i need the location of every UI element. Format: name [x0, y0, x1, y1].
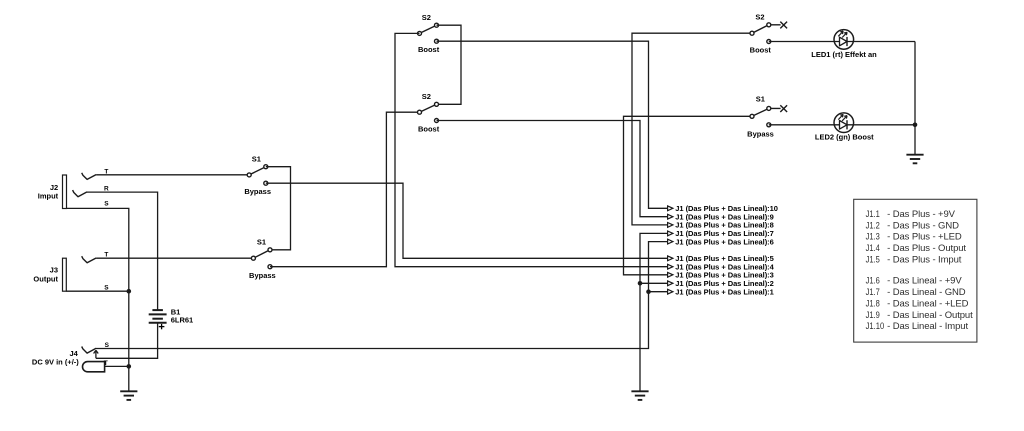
svg-text:S2: S2	[422, 92, 431, 101]
svg-text:T: T	[104, 251, 108, 258]
J1 pin 10 port arrow	[668, 206, 673, 211]
battery B1 plates	[149, 310, 167, 323]
J1 pin 4 port arrow	[668, 264, 673, 269]
wire J3 T to S1 pole2 common	[96, 257, 253, 259]
svg-text:- Das Lineal - Output: - Das Lineal - Output	[887, 310, 973, 321]
switch S2 LED-pole common contact	[750, 31, 754, 35]
svg-text:- Das Plus - +LED: - Das Plus - +LED	[887, 232, 962, 243]
switch S2 LED-pole upper contact	[767, 23, 771, 27]
junction J4 tip / GND line	[127, 364, 132, 369]
svg-text:Imput: Imput	[38, 191, 59, 200]
svg-text:Boost: Boost	[750, 46, 772, 55]
switch S1 pole2 lower contact	[268, 265, 272, 269]
switch S1 LED-pole upper contact	[767, 106, 771, 110]
J3 tip contact T	[82, 256, 96, 263]
svg-text:- Das Plus - +9V: - Das Plus - +9V	[887, 209, 956, 220]
switch S2 pole2 common contact	[418, 110, 422, 114]
wire S1 pole1 lower to J1 pin5 (Das Plus Imput)	[266, 183, 668, 258]
wire J1 pin7 (Das Lineal GND) down to ground	[640, 233, 668, 391]
wire S2 pole1 lower to J1 pin10 (Das Lineal Imput)	[437, 41, 668, 208]
svg-text:- Das Lineal - +9V: - Das Lineal - +9V	[887, 276, 962, 287]
wire S1 pole2 lower up to S2 pole2 common	[270, 112, 420, 267]
switch S1 pole1 upper contact	[264, 165, 268, 169]
wire S2 pole1 upper to S2 pole2 upper	[437, 25, 462, 104]
J2 ring contact R	[73, 190, 87, 197]
switch S2 pole1 common contact	[418, 31, 422, 35]
svg-text:J1.3: J1.3	[866, 232, 880, 243]
svg-text:- Das Plus - GND: - Das Plus - GND	[887, 220, 959, 231]
switch S1 pole1 lower contact	[264, 181, 268, 185]
wire J2 R to battery B1 top	[87, 192, 158, 310]
svg-text:Boost: Boost	[418, 45, 440, 54]
svg-text:S: S	[104, 284, 109, 291]
switch S1 pole2 common contact	[251, 256, 255, 260]
svg-text:- Das Lineal - Imput: - Das Lineal - Imput	[887, 321, 968, 332]
connector J3 (Output jack) body	[63, 258, 67, 291]
LED LED2	[834, 113, 854, 133]
S1 LED-pole unconnected stub and X	[771, 105, 787, 112]
S2 LED-pole unconnected stub and X	[771, 22, 787, 29]
wire J3 S to GND rail	[66, 290, 129, 292]
wire S2 pole1 common to J1 pin4 (Das Plus Output)	[395, 33, 668, 266]
junction J3 S / GND	[127, 289, 132, 294]
wire J1 pin3 (Das Plus +LED) to S1 LED-pole common	[624, 116, 753, 274]
switch S2 LED-pole lower contact	[767, 40, 771, 44]
svg-text:S1: S1	[252, 154, 261, 163]
wire J1 pin8 (Das Lineal +LED) to S2 LED-pole common	[632, 33, 752, 225]
svg-text:S2: S2	[755, 13, 764, 22]
switch S2 LED-pole arm	[752, 25, 769, 33]
ground (LED cathodes)	[906, 155, 923, 164]
switch S2 pole2 upper contact	[435, 102, 439, 106]
J1 pin 2 port arrow	[668, 281, 673, 286]
J4 switch contact arrow	[94, 350, 99, 358]
switch S1 LED-pole arm	[752, 108, 769, 116]
wire J1 pin1 (Das Plus +9V) to +9V vertical	[649, 291, 668, 293]
svg-text:J1.4: J1.4	[866, 243, 880, 254]
J4 barrel body	[82, 362, 104, 372]
svg-text:J1.1: J1.1	[866, 209, 880, 220]
svg-text:S1: S1	[257, 237, 266, 246]
svg-text:- Das Plus - Output: - Das Plus - Output	[887, 243, 966, 254]
switch S1 pole2 arm	[253, 250, 270, 258]
svg-text:J1.6: J1.6	[866, 276, 880, 287]
junction pin1 / +9V line	[646, 289, 651, 294]
ground (J1 GND pins)	[631, 391, 648, 400]
svg-text:J1.8: J1.8	[866, 298, 880, 309]
wire J2 S down to ground (net GND)	[67, 208, 129, 391]
switch S1 LED-pole common contact	[750, 114, 754, 118]
junction pin2 / GND line	[638, 281, 643, 286]
connector J2 (Imput jack) body	[63, 175, 67, 209]
wire B1 plus to J4 switch contact	[96, 323, 158, 359]
svg-text:J1.10: J1.10	[866, 321, 885, 332]
switch S2 pole1 lower contact	[435, 39, 439, 43]
wire S2 LED-pole lower through LED1 to ground rail	[769, 41, 915, 43]
legend box frame	[854, 199, 977, 342]
svg-text:S: S	[105, 342, 110, 349]
J1 pin 6 port arrow	[668, 239, 673, 244]
switch S1 LED-pole lower contact	[767, 123, 771, 127]
wire S1 pole1 upper to S1 pole2 upper	[266, 167, 291, 250]
svg-text:J1 (Das Plus + Das Lineal):6: J1 (Das Plus + Das Lineal):6	[675, 237, 773, 246]
wire LED cathode rail down to ground	[914, 42, 916, 155]
wire S1 LED-pole lower through LED2 to ground rail	[769, 124, 915, 126]
switch S2 pole1 arm	[420, 25, 437, 33]
wire J1 pin2 (Das Plus GND) to GND vertical	[640, 282, 668, 284]
svg-text:LED2 (gn) Boost: LED2 (gn) Boost	[815, 133, 874, 142]
J1 pin 3 port arrow	[668, 272, 673, 277]
svg-text:- Das Lineal - +LED: - Das Lineal - +LED	[887, 298, 969, 309]
J1 pin 7 port arrow	[668, 231, 673, 236]
svg-text:LED1 (rt) Effekt an: LED1 (rt) Effekt an	[811, 50, 877, 59]
J1 pin 9 port arrow	[668, 214, 673, 219]
switch S2 pole2 arm	[420, 104, 437, 112]
LED LED1	[834, 30, 854, 50]
wire J4 tip to GND line	[105, 365, 129, 367]
svg-text:Bypass: Bypass	[244, 187, 271, 196]
wire J2 T to S1 common	[96, 174, 249, 176]
svg-text:S1: S1	[756, 95, 765, 104]
svg-text:R: R	[104, 186, 109, 193]
svg-text:6LR61: 6LR61	[171, 316, 194, 325]
svg-text:- Das Plus - Imput: - Das Plus - Imput	[887, 254, 962, 265]
switch S1 pole1 common contact	[247, 173, 251, 177]
svg-text:Bypass: Bypass	[747, 129, 774, 138]
switch S2 pole1 upper contact	[435, 23, 439, 27]
svg-text:Boost: Boost	[418, 124, 440, 133]
svg-text:J3: J3	[50, 265, 58, 274]
svg-text:- Das Lineal - GND: - Das Lineal - GND	[887, 287, 966, 298]
svg-text:DC 9V in (+/-): DC 9V in (+/-)	[32, 357, 79, 366]
svg-text:Output: Output	[33, 274, 58, 283]
ground (input/output jacks, J4)	[120, 391, 137, 400]
svg-text:S: S	[104, 201, 109, 208]
J1 pin 5 port arrow	[668, 256, 673, 261]
svg-text:J1.7: J1.7	[866, 287, 880, 298]
battery B1 plus sign	[159, 324, 165, 329]
J4 tip spring contact	[82, 347, 96, 354]
svg-text:J1.9: J1.9	[866, 310, 880, 321]
switch S1 pole1 arm	[249, 167, 266, 175]
J1 pin 1 port arrow	[668, 289, 673, 294]
switch S2 pole2 lower contact	[435, 119, 439, 123]
wire J1 pin6 (Das Lineal +9V) down to +9V rail from J4	[96, 242, 668, 349]
J1 pin 8 port arrow	[668, 223, 673, 228]
svg-text:J1.2: J1.2	[866, 220, 880, 231]
switch S1 pole2 upper contact	[268, 248, 272, 252]
J2 tip contact T	[82, 173, 96, 180]
svg-text:Bypass: Bypass	[249, 271, 276, 280]
wire S2 pole2 lower to J1 pin9 (Das Lineal Output)	[437, 121, 668, 217]
svg-text:S2: S2	[422, 13, 431, 22]
junction LED2 / cathode rail	[913, 123, 918, 128]
svg-text:J1.5: J1.5	[866, 254, 880, 265]
svg-text:J1 (Das Plus + Das Lineal):1: J1 (Das Plus + Das Lineal):1	[675, 287, 773, 296]
